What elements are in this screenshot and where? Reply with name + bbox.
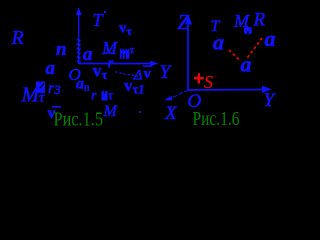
- red plus sign: [194, 73, 204, 83]
- axis Y arrowhead: [150, 61, 159, 67]
- svg-text:R: R: [11, 27, 24, 49]
- axis X diagonal line: [173, 91, 189, 98]
- axis Z arrowhead: [185, 16, 192, 25]
- axis Y (fig 1.6) arrowhead: [262, 86, 272, 93]
- axis Z vertical line: [187, 20, 189, 91]
- svg-text:r: r: [108, 56, 114, 72]
- svg-text:r: r: [91, 89, 97, 104]
- svg-text:v: v: [144, 66, 152, 82]
- axis Y (fig 1.6) horizontal line: [187, 89, 263, 92]
- label v bar (bottom): [52, 106, 61, 108]
- svg-text:Рис.1.6: Рис.1.6: [193, 108, 240, 130]
- svg-text:r3: r3: [48, 80, 61, 97]
- red dashed line right: [248, 38, 263, 58]
- vector blob at M: [120, 49, 130, 59]
- dashed wavy line to delta-v: [116, 72, 139, 77]
- svg-text:τ: τ: [130, 43, 135, 57]
- vector blob below M: [244, 27, 252, 34]
- svg-text:a: a: [83, 44, 93, 65]
- axis T vertical line: [78, 13, 80, 64]
- svg-text:a: a: [46, 58, 56, 79]
- svg-text:Рис.1.5: Рис.1.5: [54, 109, 104, 131]
- svg-text:n: n: [56, 39, 67, 60]
- vector blob (bottom row): [102, 91, 108, 101]
- red dashed line left: [229, 50, 241, 62]
- axis T arrowhead: [76, 8, 82, 16]
- svg-text:Δ: Δ: [133, 68, 143, 84]
- axis Y (fig 1.5) horizontal line: [79, 63, 151, 65]
- vector blob at M1: [36, 82, 45, 94]
- stray dot bottom: [139, 111, 141, 113]
- svg-text:a: a: [241, 52, 252, 77]
- stray dot top: [104, 11, 106, 13]
- overbar of delta-v: [143, 65, 153, 67]
- short line under M: [105, 52, 112, 54]
- svg-text:a: a: [213, 30, 224, 55]
- svg-text:X: X: [164, 103, 178, 124]
- svg-text:Z: Z: [178, 10, 190, 34]
- svg-text:M: M: [103, 103, 119, 120]
- axis X arrowhead: [164, 96, 172, 101]
- svg-text:a: a: [265, 26, 276, 51]
- svg-text:τ: τ: [39, 90, 45, 106]
- zigzag segment on T axis: [77, 38, 80, 64]
